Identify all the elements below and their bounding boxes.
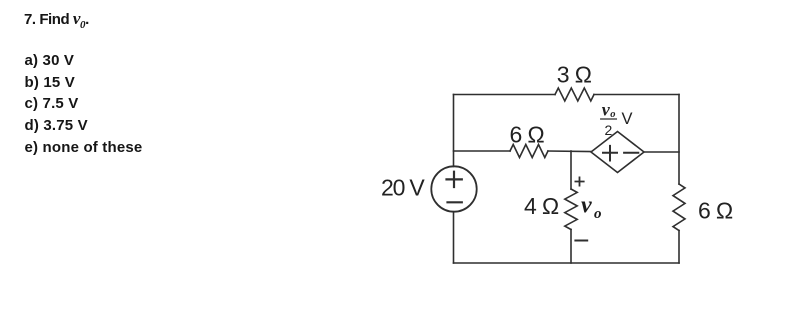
wire: bottom rail <box>454 262 680 264</box>
wire: left vertical (top rail to source top) <box>453 95 455 167</box>
wire: 4ohm to bottom rail <box>570 230 572 264</box>
svg-text:6 Ω: 6 Ω <box>510 122 545 148</box>
label + (vo polarity top) <box>575 177 583 185</box>
label - (vo polarity bottom) <box>575 240 587 242</box>
resistor R 4ohm (vertical) <box>565 189 577 230</box>
wire: middle rail to diamond <box>548 150 591 153</box>
question title <box>24 10 89 31</box>
svg-text:6 Ω: 6 Ω <box>698 198 733 224</box>
resistor R 3ohm (top) <box>555 88 594 101</box>
wire: middle rail left segment <box>454 150 511 152</box>
wire: top rail right segment <box>594 94 679 96</box>
fraction bar <box>601 118 617 120</box>
node J: junction vertical stub <box>570 151 572 189</box>
resistor R 6ohm (middle) <box>510 145 548 158</box>
dependent source U1 (diamond) <box>591 132 644 173</box>
wire: source bottom to bottom rail <box>453 212 455 263</box>
svg-text:3 Ω: 3 Ω <box>557 62 592 88</box>
svg-text:2: 2 <box>605 122 613 138</box>
label vo (across 4ohm) <box>581 193 602 222</box>
resistor R 6ohm (right) <box>673 184 685 231</box>
plus sign in source <box>447 172 462 187</box>
wire: right rail top segment <box>678 95 680 185</box>
wire: diamond to right rail <box>644 151 679 153</box>
svg-text:20 V: 20 V <box>381 175 425 201</box>
label vo/2 V above diamond <box>602 100 633 138</box>
wire: top rail left segment <box>454 94 556 96</box>
wire: right rail bottom segment <box>678 231 680 264</box>
voltage source V1 circle <box>431 166 476 211</box>
svg-text:V: V <box>622 110 633 128</box>
minus sign in source <box>448 201 462 203</box>
answer options <box>25 50 143 159</box>
plus sign inside diamond <box>603 146 617 161</box>
svg-text:o: o <box>594 206 602 222</box>
svg-text:4 Ω: 4 Ω <box>524 193 559 219</box>
minus sign inside diamond <box>624 152 638 154</box>
svg-text:v: v <box>581 193 592 219</box>
